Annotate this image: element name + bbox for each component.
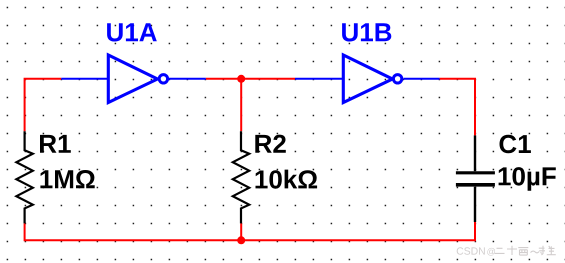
inverter U1A output pin xyxy=(169,78,206,80)
capacitor C1 label xyxy=(500,135,531,154)
inverter U1B output pin xyxy=(404,78,440,80)
capacitor C1 value 10µF xyxy=(499,167,556,191)
resistor R2 label xyxy=(255,135,285,153)
watermark CSDN @ xyxy=(457,247,485,254)
inverter U1B label xyxy=(342,23,391,41)
node junction dot top xyxy=(237,75,245,83)
wire middle red segment between U1A output and U1B input xyxy=(206,78,295,80)
wire middle vertical red to R2 xyxy=(240,79,242,131)
node junction dot bottom xyxy=(237,236,245,244)
inverter U1A bubble xyxy=(159,75,167,83)
capacitor C1 top lead xyxy=(474,135,476,171)
capacitor C1 bottom plate xyxy=(456,183,495,187)
wire top-right red segment to C1 xyxy=(440,79,475,136)
wire red below R2 xyxy=(240,223,242,240)
inverter U1B input pin xyxy=(295,78,343,80)
watermark CJK glyphs approximated xyxy=(495,246,556,255)
resistor R2 xyxy=(233,131,249,223)
wire top-left red segment xyxy=(25,79,62,131)
capacitor C1 top plate xyxy=(456,171,495,174)
inverter U1B bubble xyxy=(393,75,401,83)
inverter U1A label xyxy=(107,23,157,41)
wire bottom rail red xyxy=(25,222,475,240)
capacitor C1 bottom lead xyxy=(474,187,476,222)
inverter U1A triangle xyxy=(108,55,157,103)
inverter U1A input pin xyxy=(61,78,108,80)
resistor R1 xyxy=(16,131,32,223)
resistor R1 label xyxy=(40,135,71,153)
resistor R2 value 10kΩ xyxy=(256,170,318,189)
resistor R1 value 1MΩ xyxy=(40,170,94,188)
inverter U1B triangle xyxy=(343,55,392,103)
